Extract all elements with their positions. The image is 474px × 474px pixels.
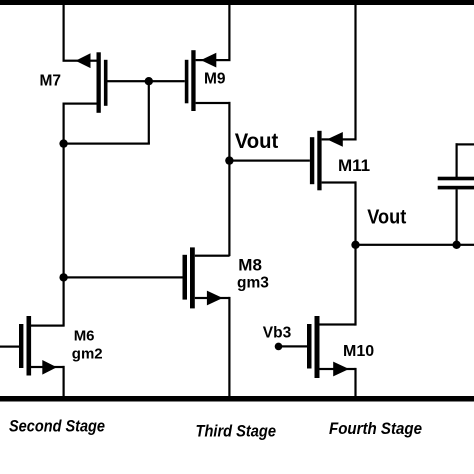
wire M11 source horizontal [322, 138, 357, 140]
svg-text:gm2: gm2 [72, 346, 103, 363]
transistor M11 [310, 131, 322, 191]
svg-text:Vout: Vout [235, 130, 278, 153]
wire M8 gate from second stage node [63, 276, 183, 278]
transistor M9 [185, 50, 196, 111]
wire M9 gate from mirror node [149, 80, 185, 82]
wire M7 source horizontal [63, 60, 97, 62]
wire M6 source horizontal [31, 366, 65, 368]
capacitor C top lead vertical [456, 143, 458, 177]
wire M11 drain down to output node [354, 181, 356, 245]
wire output line to right edge [356, 244, 474, 246]
wire M9 drain down to Vout node [228, 102, 230, 162]
wire M9 source horizontal [196, 59, 231, 61]
svg-text:Fourth Stage: Fourth Stage [329, 419, 422, 438]
wire M7 source to VDD [63, 5, 65, 62]
PMOS source arrow of M7 [76, 53, 91, 68]
VDD rail (top supply line) [0, 0, 474, 5]
svg-text:Second Stage: Second Stage [9, 417, 105, 436]
wire M7 drain down to second stage node [63, 103, 65, 327]
junction M7 drain / diode node [59, 139, 67, 147]
svg-text:M9: M9 [204, 70, 226, 87]
wire M7 drain horizontal [63, 103, 97, 105]
svg-text:Third Stage: Third Stage [196, 423, 277, 441]
PMOS source arrow of M9 [201, 53, 217, 68]
junction Vout third stage node [225, 156, 233, 164]
wire M9 source to VDD [228, 5, 230, 61]
wire M8 source horizontal [195, 297, 230, 299]
svg-text:M6: M6 [74, 327, 95, 344]
junction output node [351, 241, 359, 249]
NMOS source arrow of M10 [333, 362, 349, 377]
wire M10 drain up to output node [354, 245, 356, 326]
wire M11 source to VDD [354, 5, 356, 141]
wire gate node down (diode connection) [148, 81, 150, 144]
transistor M7 [97, 52, 108, 113]
wire Vout node to M11 gate [229, 160, 310, 162]
terminal Vb3 dot [275, 343, 283, 351]
junction second stage node [59, 273, 67, 281]
NMOS source arrow of M6 [42, 360, 57, 375]
svg-text:M7: M7 [40, 72, 62, 89]
svg-text:Vout: Vout [367, 207, 406, 229]
wire diode connection horizontal [63, 143, 150, 145]
wire M8 source to VSS [228, 297, 230, 397]
svg-text:M10: M10 [343, 343, 374, 360]
wire M10 drain horizontal [320, 323, 356, 325]
capacitor C bottom lead vertical [456, 189, 458, 245]
transistor M6 [19, 316, 31, 376]
wire M9 drain horizontal [196, 102, 231, 104]
wire M11 drain horizontal [322, 181, 357, 183]
wire M7 gate to mirror node [108, 80, 150, 82]
wire M10 source to VSS [354, 368, 356, 397]
wire M10 gate from Vb3 [279, 345, 308, 347]
svg-text:gm3: gm3 [237, 275, 269, 292]
NMOS source arrow of M8 [207, 291, 223, 306]
capacitor C top lead wire [456, 143, 474, 145]
svg-text:Vb3: Vb3 [263, 324, 292, 341]
VSS rail (bottom supply line) [0, 396, 474, 402]
transistor M10 [307, 316, 320, 378]
svg-text:M8: M8 [238, 255, 262, 274]
junction capacitor bottom node [452, 241, 460, 249]
wire Vout node down to M8 drain [228, 161, 230, 257]
wire M6 source to VSS [63, 366, 65, 397]
capacitor C [438, 177, 474, 190]
junction mirror gate node [145, 77, 153, 85]
transistor M8 [183, 247, 195, 308]
PMOS source arrow of M11 [327, 132, 343, 147]
svg-text:M11: M11 [338, 156, 370, 175]
wire M6 drain horizontal [31, 325, 65, 327]
wire M10 source horizontal [320, 368, 356, 370]
wire M8 drain horizontal [195, 255, 230, 257]
wire M6 gate from left edge [0, 346, 19, 348]
